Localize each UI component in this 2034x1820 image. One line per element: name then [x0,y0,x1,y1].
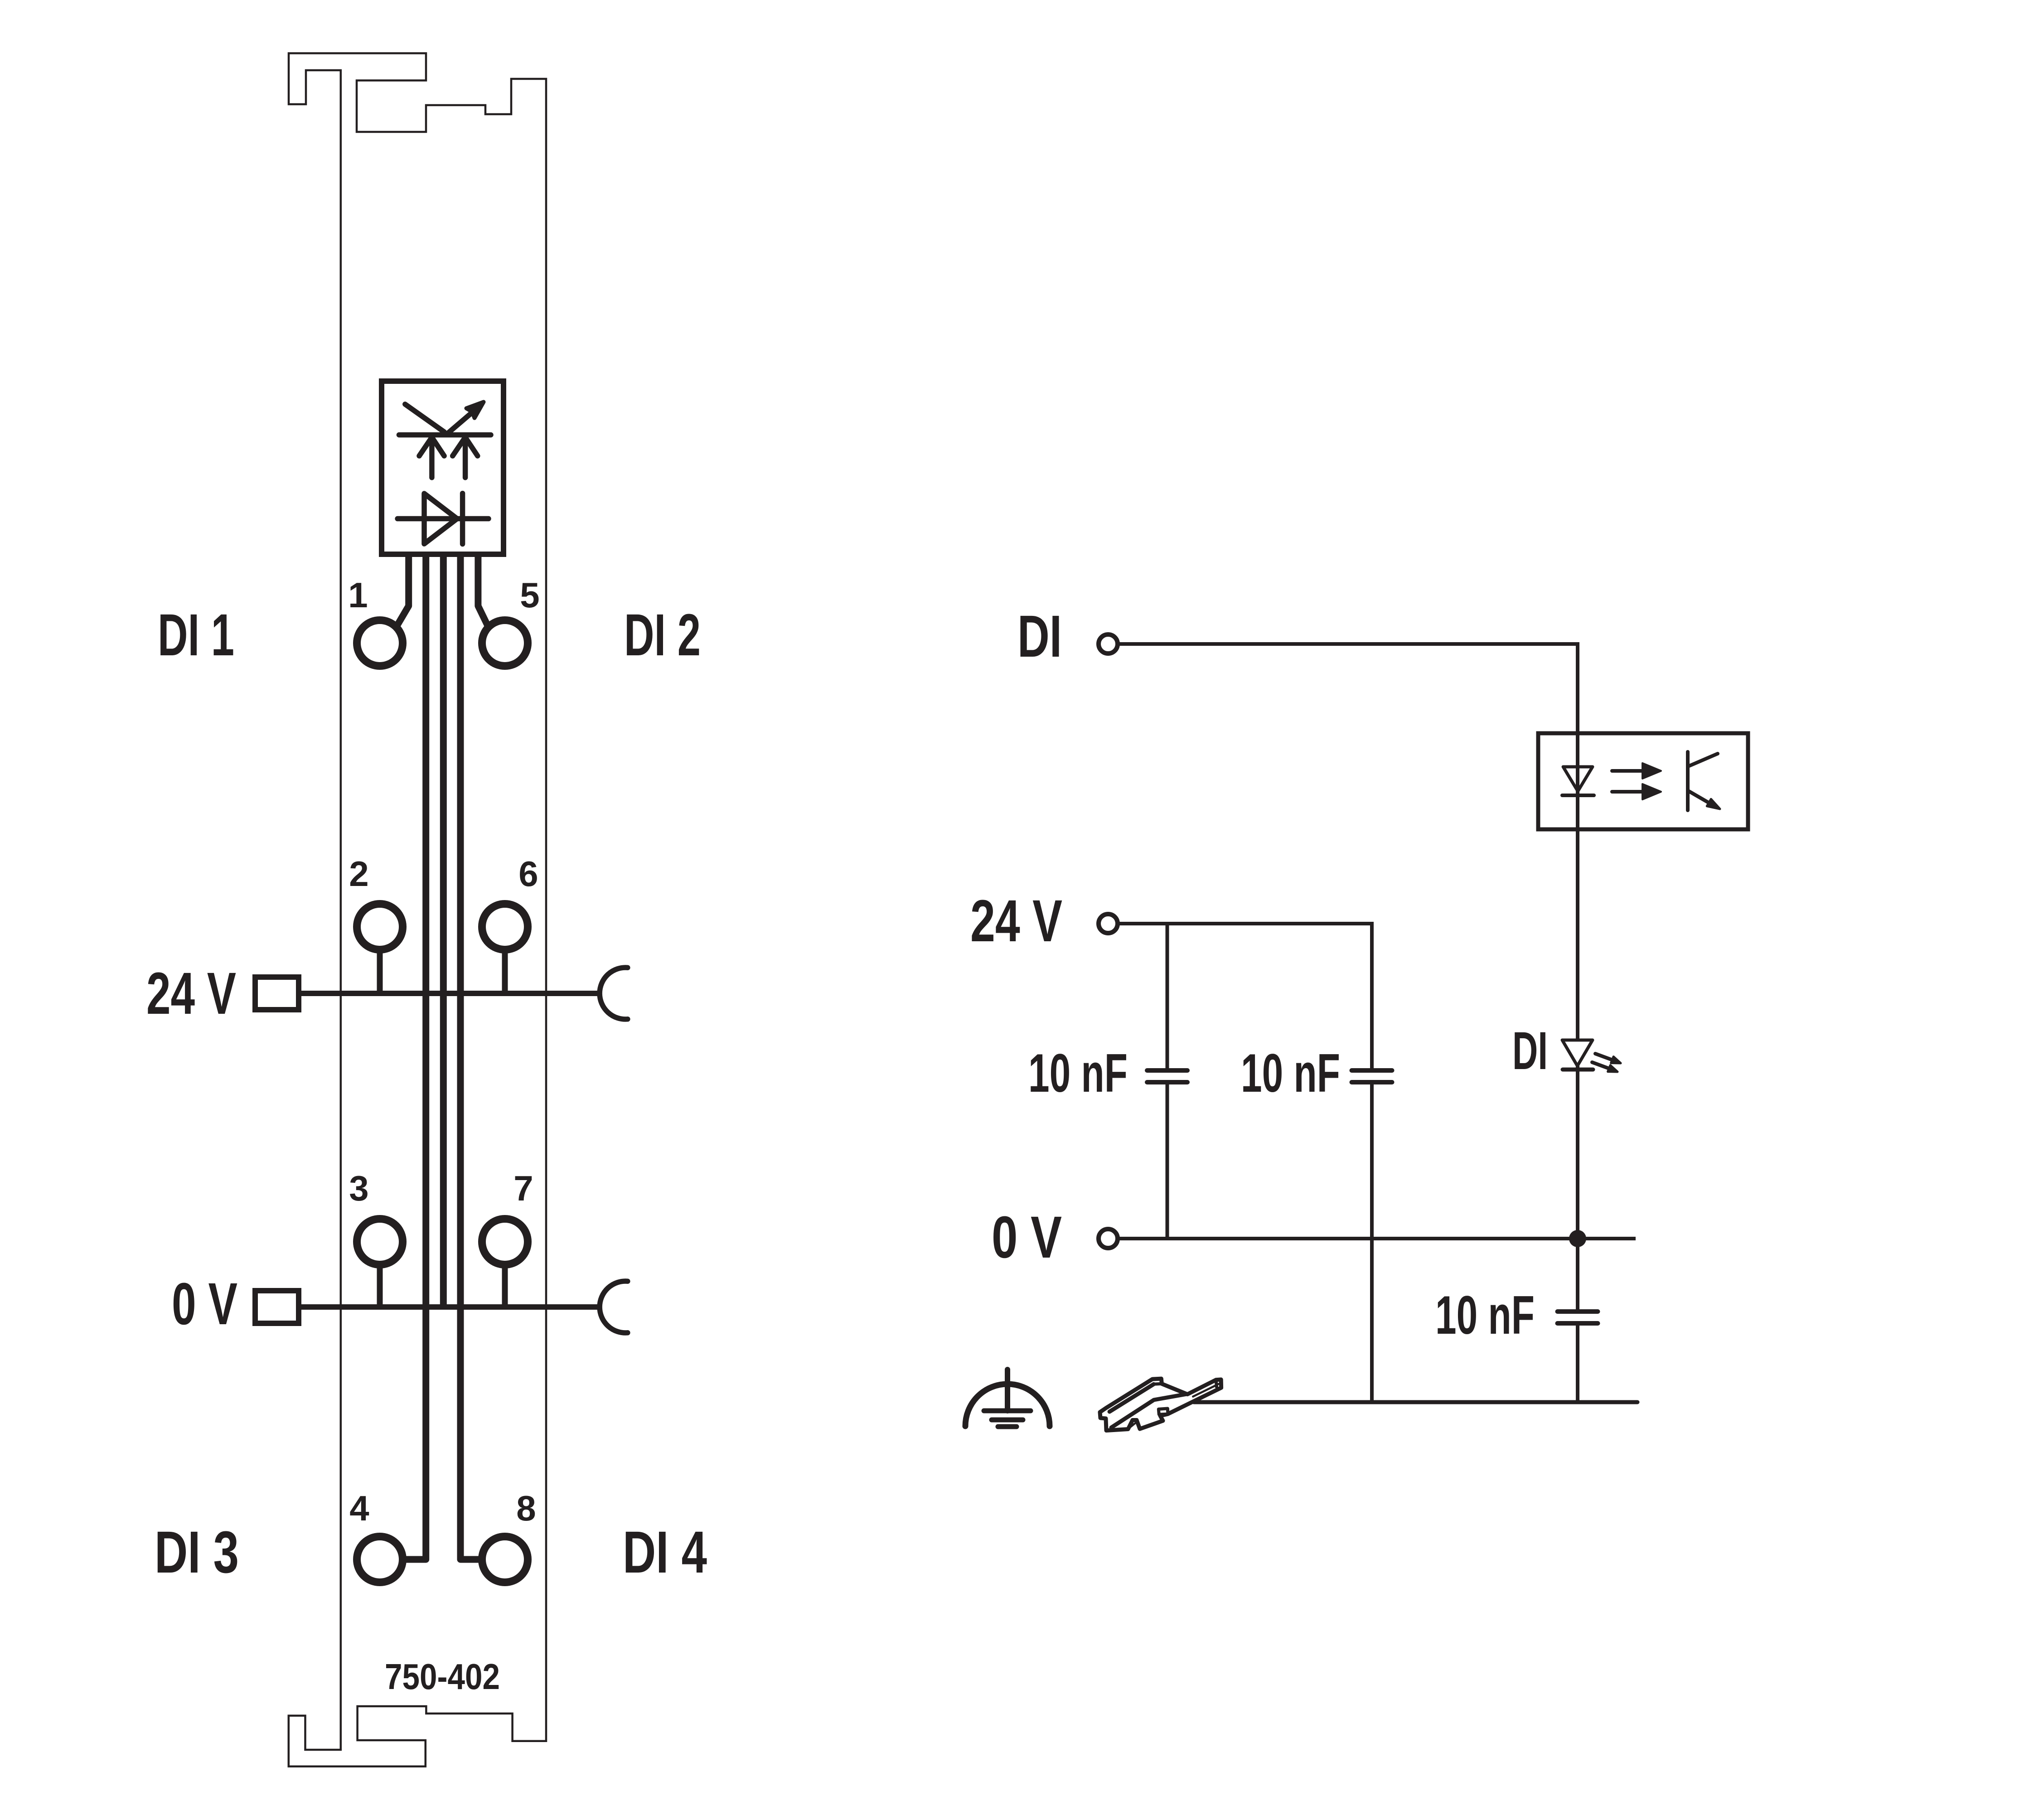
svg-text:0 V: 0 V [172,1270,237,1337]
0V power rail [299,1304,600,1310]
terminal 2 stem [377,951,383,993]
terminal 6 stem [502,951,508,993]
DI wire vertical to opto box [1576,642,1579,733]
phototransistor emitter arrowhead [1707,799,1720,809]
capacitor C3 bottom lead [1576,1323,1579,1402]
svg-text:DI 2: DI 2 [624,601,701,668]
svg-text:750-402: 750-402 [385,1656,500,1697]
svg-text:5: 5 [520,575,539,615]
svg-text:10 nF: 10 nF [1241,1043,1340,1104]
LED DI cathode bar [1563,1068,1593,1072]
DIN rail right flange front end face [1158,1409,1168,1414]
phototransistor emitter [1688,791,1711,804]
DIN rail channel floor crest [1111,1394,1187,1428]
light arrow 2 head [1642,784,1661,799]
surge suppressor symbol baseline [399,432,491,438]
svg-text:4: 4 [349,1488,369,1528]
DIN rail notch highlight [1130,1422,1137,1427]
DIN rail silhouette [1100,1379,1221,1430]
surge suppressor reflected arrow shaft [446,412,473,434]
svg-text:DI 4: DI 4 [623,1519,707,1585]
functional earth bar 2 [992,1418,1023,1423]
svg-text:6: 6 [518,854,538,894]
functional earth stem [1005,1370,1010,1411]
capacitor C2 plates [1352,1068,1392,1073]
opto LED wire through box [1576,733,1579,829]
LED DI emission arrow 2 [1592,1062,1609,1069]
DIN rail left flange inner edge [1109,1384,1154,1412]
svg-text:3: 3 [349,1168,368,1208]
protection diode triangle [424,494,457,544]
DIN rail left flange end face bottom [1154,1382,1162,1386]
terminal 4 [357,1537,403,1583]
optocoupler box [1538,733,1748,829]
24V terminal circle [1099,914,1118,933]
input circuit symbol box U1 [382,381,504,554]
functional earth bar 1 [984,1409,1031,1413]
DI4 bus wire (pin 4 to terminal 8) [460,554,481,1559]
svg-text:10 nF: 10 nF [1435,1285,1535,1346]
up arrow 2 shaft [463,440,468,478]
terminal 3 stem [377,1266,383,1307]
0V rail jumper contact hook [600,1281,628,1333]
DIN rail right flange end face inner edge [1216,1380,1217,1387]
svg-text:8: 8 [516,1488,536,1528]
svg-text:DI: DI [1512,1021,1548,1081]
phototransistor base bar [1686,752,1690,810]
DIN rail symbol [1100,1379,1221,1430]
DI wire horizontal [1119,642,1578,646]
svg-text:DI 1: DI 1 [158,601,234,668]
capacitor C1 top lead [1166,924,1169,1070]
svg-text:24 V: 24 V [146,960,236,1026]
phototransistor collector [1688,754,1718,766]
svg-text:10 nF: 10 nF [1028,1043,1128,1104]
DI3 bus wire (pin 2 to terminal 4) [404,554,426,1559]
24V feed tab [255,977,299,1010]
terminal 7 stem [502,1266,508,1307]
DIN rail right flange thin top edge [1193,1384,1219,1396]
terminal 5 [482,620,528,666]
opto LED cathode bar [1562,794,1594,797]
svg-text:DI: DI [1017,603,1062,669]
light arrow 1 head [1642,763,1661,779]
svg-text:0 V: 0 V [992,1204,1062,1270]
svg-text:7: 7 [513,1168,533,1208]
functional earth bar 3 [998,1424,1017,1429]
opto LED triangle [1563,767,1593,791]
protection diode wire [397,516,489,522]
capacitor C1 bottom lead to 0V wire [1166,1082,1169,1239]
0V feed tab [255,1291,299,1323]
module 750-402 body outline [289,53,546,1767]
surge suppressor incoming ray [405,404,444,432]
junction node dot [1569,1230,1586,1247]
DI input terminal circle [1099,634,1118,653]
capacitor C2 bottom lead to shield rail [1370,1082,1374,1402]
0V wire horizontal [1119,1237,1636,1240]
0V terminal circle [1099,1229,1118,1248]
light arrow 2 shaft [1612,790,1642,794]
24V wire horizontal [1119,922,1372,925]
LED DI triangle [1562,1040,1593,1066]
up arrow 1 head [419,437,444,456]
pin 5 wire [478,554,488,626]
terminal 6 [482,904,528,950]
capacitor C2 top lead from 24V corner [1370,922,1374,1070]
24V rail jumper contact hook [600,968,628,1019]
svg-text:1: 1 [348,575,368,615]
capacitor C3 plates [1558,1309,1598,1314]
up arrow 1 shaft [429,440,435,478]
svg-text:2: 2 [349,854,368,894]
pin 1 wire [397,554,409,626]
up arrow 2 head [453,437,478,456]
terminal 7 [482,1219,528,1265]
surge suppressor arrowhead [466,402,484,418]
protection diode cathode bar [460,494,465,544]
light arrow 1 shaft [1612,769,1642,773]
wire LED to junction [1576,1066,1579,1239]
capacitor C1 plates [1147,1068,1187,1073]
wire opto box to LED [1576,829,1579,1041]
svg-text:24 V: 24 V [970,887,1062,954]
capacitor C3 top lead [1576,1239,1579,1312]
svg-text:DI 3: DI 3 [155,1519,239,1585]
24V power rail [299,991,600,996]
terminal 1 [357,620,403,666]
LED DI emission arrow 1 [1595,1054,1613,1060]
terminal 2 [357,904,403,950]
terminal 3 [357,1219,403,1265]
functional earth arc [965,1384,1050,1426]
shield ground rail [1194,1400,1637,1404]
0V bus wire (pin 3 to 0V rail) [440,554,447,1307]
terminal 8 [482,1537,528,1583]
